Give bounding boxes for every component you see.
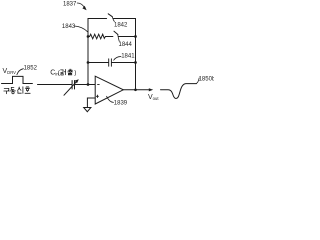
korean char dong circle (12, 91, 14, 93)
svg-text:1850b: 1850b (199, 76, 214, 82)
wire cap row left (88, 62, 108, 64)
leader 1841 (114, 57, 121, 61)
leader 1844 (118, 34, 120, 41)
junction node right rail / capacitor row (134, 61, 137, 64)
korean char ho circle (26, 89, 28, 91)
svg-text:1852: 1852 (24, 65, 38, 71)
wire op-amp output (123, 89, 135, 91)
wire left rail (87, 19, 89, 85)
leader 1839 (107, 96, 114, 102)
svg-text:1843: 1843 (62, 24, 76, 30)
resistor R 1843 (88, 34, 113, 39)
waveform input pulse 1852 (2, 76, 33, 83)
svg-text:1844: 1844 (119, 42, 133, 48)
junction node left rail / resistor (87, 35, 90, 38)
wire box top right segment (113, 18, 135, 20)
svg-text:1839: 1839 (114, 101, 128, 107)
svg-text:1842: 1842 (114, 23, 128, 29)
leader 1842 (112, 17, 114, 22)
wire right rail (135, 19, 137, 90)
svg-text:1837: 1837 (63, 1, 77, 7)
leader 1843 (74, 26, 87, 32)
korean char sin (신) (18, 87, 23, 94)
arrow of variable capacitor C_in (64, 81, 77, 95)
arrowhead C_in variable arrow (75, 79, 79, 83)
switch 1842 (108, 14, 112, 17)
junction node output (134, 88, 137, 91)
capacitor C 1841 (109, 59, 112, 66)
wire C_in to op-amp (75, 84, 95, 86)
svg-text:): ) (74, 70, 76, 77)
wire inverting input (38, 84, 72, 86)
svg-text:1841: 1841 (121, 53, 135, 59)
arrowhead 1837 (82, 6, 86, 11)
svg-text:VDRV: VDRV (3, 68, 17, 75)
korean char dong (동) (10, 87, 15, 91)
wire box top left segment (88, 18, 107, 20)
svg-text:Vout: Vout (148, 94, 159, 101)
leader 1852 (17, 69, 24, 75)
junction node inverting input (87, 83, 90, 86)
korean char gu (구) (4, 88, 10, 93)
op-amp U 1839 (95, 76, 123, 104)
korean char chul (출) (68, 69, 73, 75)
wire middle row right (118, 36, 135, 38)
korean char ho (호) (25, 87, 30, 93)
leader 1837 (77, 3, 84, 7)
plus sign op-amp (96, 95, 99, 98)
arrowhead output (149, 88, 153, 91)
capacitor C_in (72, 81, 74, 90)
wire cap row right (112, 62, 136, 64)
leader 1850b (196, 78, 199, 84)
junction node left rail / capacitor row (87, 61, 90, 64)
korean char geom (검) (61, 69, 66, 75)
minus sign op-amp (97, 83, 99, 86)
junction node right rail / resistor row (134, 35, 137, 38)
ground (84, 108, 91, 112)
switch 1844 (114, 31, 118, 34)
wire non-inverting input (87, 98, 95, 107)
wire output arrow (136, 89, 150, 91)
waveform output 1850b (161, 84, 197, 99)
